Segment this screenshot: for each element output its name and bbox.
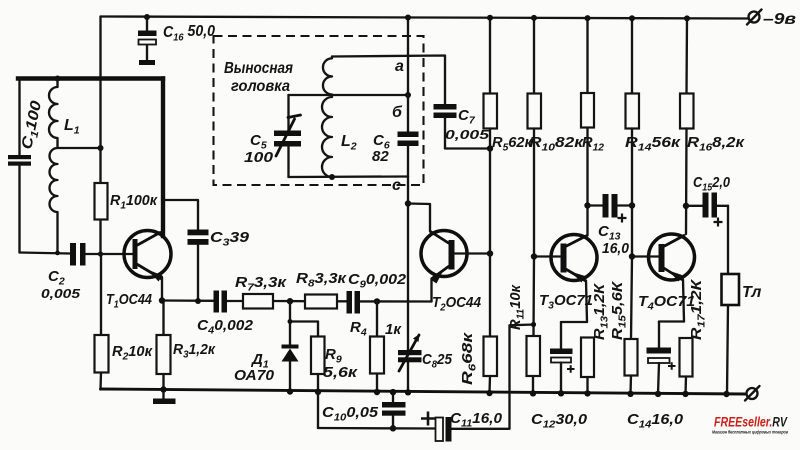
node T3 base junction	[531, 253, 537, 259]
wire T2 collector to c line	[408, 204, 430, 232]
svg-text:R168,2к: R168,2к	[687, 134, 746, 154]
svg-text:С100,05: С100,05	[322, 404, 379, 424]
node R13 bus junction	[584, 390, 590, 396]
capacitor C1	[8, 79, 48, 253]
node rail R14 junction	[629, 15, 635, 21]
wire top supply rail	[101, 17, 750, 19]
node R4 junction	[374, 298, 380, 304]
node R11 top junction	[531, 322, 536, 327]
svg-text:С1116,0: С1116,0	[450, 410, 503, 430]
transistor T1 OC44	[106, 231, 171, 311]
node C7 R5 junction	[487, 145, 493, 151]
svg-text:а: а	[395, 58, 404, 75]
svg-text:С7: С7	[458, 107, 476, 127]
wire lower bus right	[452, 325, 534, 429]
wire C2 to base T1	[86, 253, 134, 255]
svg-text:0,005: 0,005	[41, 286, 81, 301]
node rail R10 junction	[531, 15, 537, 21]
svg-text:С90,002: С90,002	[348, 271, 407, 291]
svg-text:R155,6К: R155,6К	[609, 280, 629, 340]
capacitor C2	[41, 243, 86, 301]
svg-text:С1100: С1100	[18, 99, 47, 152]
node R6 bus junction	[486, 390, 492, 396]
wire T4 base lead	[632, 255, 659, 257]
resistor R2	[95, 254, 154, 390]
node b junction	[405, 92, 411, 98]
resistor R10	[528, 18, 585, 257]
inductor L2	[322, 57, 357, 178]
wire T4 emitter down	[683, 280, 684, 322]
resistor R15	[609, 257, 638, 394]
capacitor C13	[588, 194, 633, 257]
wire R9 drop to lower bus	[317, 392, 319, 428]
resistor R4	[350, 301, 402, 392]
node C10 lower bus junction	[390, 425, 396, 431]
wire c line down	[407, 177, 409, 351]
node C14 bus junction	[655, 391, 661, 397]
wire b line	[289, 94, 409, 96]
capacitor C3	[165, 200, 250, 301]
capacitor C9	[347, 271, 407, 314]
capacitor C15	[686, 174, 731, 227]
node R4 bus junction	[374, 389, 380, 395]
svg-text:R562к: R562к	[492, 134, 533, 154]
svg-text:С1230,0: С1230,0	[531, 411, 588, 431]
node D1 bus junction	[287, 388, 293, 394]
resistor R3	[157, 301, 217, 390]
node rail b drop junction	[405, 15, 411, 21]
svg-text:Магазин бесплатных цифровых то: Магазин бесплатных цифровых товаров	[712, 429, 788, 435]
svg-text:R1110к: R1110к	[507, 284, 527, 330]
wire thick collector drop T1	[161, 79, 165, 237]
svg-text:R9: R9	[325, 346, 342, 366]
svg-text:1к: 1к	[385, 321, 402, 338]
svg-text:Т1ОС44: Т1ОС44	[106, 291, 153, 311]
node L1 bottom junction	[55, 251, 60, 256]
svg-text:с: с	[392, 177, 401, 194]
capacitor C8 variable	[398, 334, 453, 392]
svg-text:R668к: R668к	[459, 331, 479, 385]
capacitor C12	[531, 322, 588, 431]
svg-text:82: 82	[372, 148, 389, 165]
node C12 bus junction	[558, 390, 564, 396]
node rail R12 junction	[585, 15, 591, 21]
wire T3 base lead	[534, 255, 561, 257]
node C13 left junction	[584, 202, 590, 208]
node R17 bus junction	[682, 391, 688, 397]
node R3 bus junction	[160, 386, 166, 392]
node L1 tap junction	[98, 145, 104, 151]
svg-text:ОА70: ОА70	[234, 367, 275, 384]
node T2 collector branch junction	[405, 200, 411, 206]
svg-text:R171,2К: R171,2К	[688, 278, 708, 340]
terminal -9v top right	[747, 10, 796, 29]
wire D1 to R9 jog	[290, 320, 318, 322]
resistor R12	[581, 18, 604, 235]
node emitter T1 junction	[159, 297, 165, 303]
transistor T2 OC44	[421, 231, 482, 314]
resistor R7	[235, 274, 288, 309]
svg-text:б: б	[392, 104, 403, 121]
resistor R5	[484, 18, 534, 254]
wire T2 emitter down	[430, 279, 432, 302]
wire tank bottom	[20, 253, 71, 254]
resistor R1	[95, 183, 159, 220]
svg-text:R1082к: R1082к	[529, 134, 585, 154]
wire T2 base lead	[455, 252, 491, 254]
capacitor C5 variable	[244, 95, 301, 177]
svg-text:16,0: 16,0	[602, 240, 630, 257]
dashed remote head box	[214, 36, 424, 185]
svg-text:Тл: Тл	[742, 284, 761, 301]
node L2 bottom junction	[329, 174, 335, 180]
svg-text:R31,2к: R31,2к	[173, 341, 216, 361]
transistor T4 OC71	[638, 234, 695, 313]
wire signal line emitter T1 to T2	[162, 299, 214, 302]
node Tl bus junction	[723, 391, 729, 397]
svg-text:С825: С825	[422, 351, 453, 371]
node rail R16 junction	[684, 15, 690, 21]
svg-text:R131,2К: R131,2К	[591, 282, 611, 340]
wire lower bus left	[318, 427, 435, 430]
node R11 bus junction	[530, 390, 536, 396]
svg-text:головка: головка	[231, 78, 290, 95]
resistor R6	[459, 254, 497, 394]
transistor T3 OC71	[539, 235, 597, 312]
node C13 right junction	[629, 202, 635, 208]
node T4 base junction	[629, 253, 635, 259]
node C10 bus junction	[390, 389, 396, 395]
node R15 bus junction	[627, 391, 633, 397]
wire thick tank top line	[18, 76, 163, 80]
resistor R9	[311, 322, 359, 392]
capacitor C4	[197, 291, 254, 337]
capacitor C11	[421, 410, 503, 442]
svg-text:Т4ОС71: Т4ОС71	[638, 293, 695, 313]
svg-text:R4: R4	[350, 319, 367, 339]
wire T1 emitter lead	[161, 277, 163, 301]
svg-text:С152,0: С152,0	[693, 174, 731, 194]
svg-text:R1100к: R1100к	[110, 192, 158, 212]
capacitor C14	[627, 322, 684, 431]
capacitor C6	[372, 95, 419, 177]
capacitor C7	[434, 104, 491, 149]
earphone Tl	[722, 206, 762, 394]
wire a line L2 top to C7	[332, 56, 445, 105]
resistor R13	[581, 282, 611, 393]
svg-text:R12: R12	[582, 134, 604, 154]
svg-text:L2: L2	[341, 133, 357, 153]
svg-text:С2: С2	[48, 268, 65, 288]
ground chassis symbol	[153, 390, 176, 405]
wire head bottom line	[289, 175, 409, 178]
wire T3 emitter down	[586, 281, 587, 323]
svg-text:Выносная: Выносная	[224, 60, 293, 77]
svg-text:R73,3к: R73,3к	[235, 274, 288, 294]
node D1 R9 jog junction	[288, 319, 293, 324]
node T2 base junction	[487, 250, 493, 256]
terminal bottom right	[745, 386, 760, 401]
wire main bottom bus	[101, 389, 746, 394]
node C3 junction	[195, 298, 201, 304]
svg-text:L1: L1	[64, 117, 80, 137]
wire rail down to b	[407, 18, 409, 96]
node R7 R8 D1 junction	[287, 298, 293, 304]
svg-text:Т2ОС44: Т2ОС44	[432, 294, 482, 314]
logo FREEseller.RV	[712, 415, 788, 435]
svg-text:С16 50,0: С16 50,0	[163, 23, 215, 44]
svg-text:С1416,0: С1416,0	[627, 411, 684, 431]
resistor R17	[680, 278, 708, 394]
wire left vertical from rail to base divider	[99, 17, 101, 184]
resistor R8	[296, 270, 348, 309]
capacitor C10	[322, 392, 406, 428]
svg-text:R1456к: R1456к	[625, 134, 682, 154]
svg-text:R83,3к: R83,3к	[296, 270, 348, 290]
svg-text:С339: С339	[210, 229, 250, 249]
wire R1 to base junction	[99, 220, 101, 255]
svg-text:С40,002: С40,002	[197, 317, 254, 337]
resistor R16	[680, 18, 746, 234]
node base divider junction	[98, 251, 103, 256]
wire L1 tap to divider	[58, 147, 101, 149]
svg-text:100: 100	[244, 149, 274, 166]
resistor R14	[625, 18, 682, 256]
diode D1 OA70	[234, 301, 299, 391]
svg-text:5,6к: 5,6к	[323, 364, 359, 381]
node C8 bus junction	[405, 389, 411, 395]
node C15 left junction	[683, 203, 689, 209]
svg-text:R210к: R210к	[112, 343, 153, 363]
svg-text:FREEseller.RV: FREEseller.RV	[714, 415, 788, 430]
node R9 bus junction	[315, 389, 321, 395]
svg-text:–9в: –9в	[763, 11, 796, 28]
resistor R11	[507, 257, 540, 394]
node rail R5 junction	[487, 15, 493, 21]
svg-text:Т3ОС71: Т3ОС71	[539, 292, 593, 312]
capacitor C16	[138, 14, 215, 65]
inductor L1	[49, 76, 80, 254]
